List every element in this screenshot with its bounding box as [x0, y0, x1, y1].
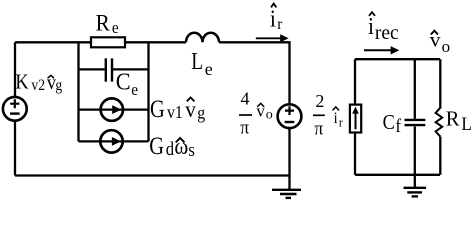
right circuit wires [355, 59, 440, 175]
svg-text:s: s [188, 139, 195, 160]
svg-text:e: e [131, 82, 138, 100]
svg-text:π: π [314, 118, 323, 139]
svg-text:4: 4 [241, 88, 250, 108]
label irec [368, 12, 399, 44]
wire right bottom rail [355, 174, 440, 176]
inductor Le [186, 33, 219, 43]
svg-text:R: R [446, 106, 460, 131]
svg-text:o: o [266, 107, 273, 122]
svg-text:L: L [191, 48, 203, 75]
voltage source Kv2vg [3, 97, 27, 121]
label Gv1vg [150, 95, 206, 123]
wire Cf rail upper [414, 59, 416, 119]
svg-text:i: i [368, 13, 374, 39]
dependent source 4/pi vo [278, 104, 302, 128]
current source Gv1vg [79, 98, 149, 120]
resistor Re [91, 37, 125, 47]
svg-text:e: e [205, 59, 213, 79]
label Gdws [149, 132, 195, 160]
capacitor Ce [79, 58, 149, 81]
svg-text:i: i [334, 109, 338, 127]
svg-text:r: r [277, 16, 283, 33]
wire RL rail upper [439, 59, 441, 108]
label Le [191, 48, 213, 79]
arrow irec [364, 46, 399, 54]
svg-text:R: R [96, 9, 110, 35]
label ir top [270, 4, 283, 34]
svg-text:C: C [116, 69, 131, 96]
svg-text:G: G [150, 95, 165, 122]
ground right [404, 175, 427, 197]
wire left rail lower right circuit [354, 133, 356, 175]
label Kv2vg [15, 70, 62, 94]
label 2/pi ir [313, 91, 343, 139]
current source Gdws [79, 130, 149, 152]
node block right rail [147, 42, 149, 141]
capacitor Cf [405, 120, 426, 125]
svg-text:ω: ω [174, 133, 188, 159]
svg-text:v1: v1 [167, 102, 183, 122]
svg-text:π: π [240, 117, 249, 138]
label vo right [430, 28, 450, 56]
current source ir box [350, 105, 361, 133]
svg-text:rec: rec [375, 23, 399, 44]
label RL [446, 106, 472, 134]
arrow ir [256, 34, 289, 42]
label Re [96, 9, 119, 37]
resistor RL [436, 108, 443, 137]
label Ce [116, 69, 138, 100]
wire inductor to corner and down to dependent source [219, 42, 290, 104]
svg-text:v2: v2 [31, 77, 45, 94]
svg-text:C: C [383, 111, 395, 135]
wire RL rail lower [439, 137, 441, 175]
wire left rail upper [14, 42, 16, 98]
label Cf [383, 111, 402, 137]
svg-text:r: r [339, 115, 343, 130]
svg-text:g: g [55, 77, 62, 94]
wire left rail upper right circuit [354, 59, 356, 104]
svg-text:e: e [112, 19, 119, 37]
wire top rail right circuit [355, 58, 440, 60]
svg-text:i: i [270, 6, 276, 32]
wire top left from source to inductor [15, 41, 186, 43]
svg-text:o: o [442, 37, 451, 56]
wire left rail lower [14, 120, 16, 176]
svg-text:K: K [15, 70, 29, 94]
svg-text:f: f [395, 115, 402, 136]
svg-text:G: G [149, 132, 164, 159]
svg-text:L: L [461, 113, 471, 134]
wire Cf rail lower [414, 126, 416, 174]
svg-text:g: g [197, 103, 205, 123]
node block left rail [77, 42, 79, 141]
wire below dependent source [288, 128, 290, 176]
ground [272, 176, 301, 198]
svg-text:d: d [166, 138, 175, 159]
wire bottom rail [15, 174, 290, 176]
svg-text:2: 2 [315, 91, 324, 111]
label 4/pi vo [239, 88, 273, 138]
